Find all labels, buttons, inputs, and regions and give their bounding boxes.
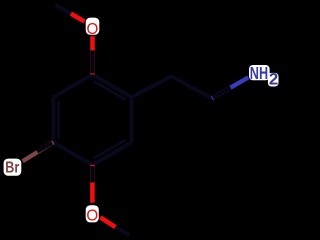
bond O-CH3 (bottom methyl) (100, 217, 115, 227)
bond C4-Br (23, 142, 54, 161)
bond CH2b-N (to amine) (212, 77, 248, 98)
wire ring bond C6-C5 (to bottom vertex) (93, 142, 132, 165)
wire ring bond C5-C4 (bottom vertex to bottom-left) (53, 142, 92, 165)
wire ring bond C3-C2 (to top vertex) (53, 75, 92, 98)
atom label O (bottom methoxy oxygen) (86, 205, 99, 224)
svg-text:O: O (87, 21, 99, 38)
svg-text:Br: Br (5, 159, 19, 176)
wire ring bond C2-C1 (top vertex to top-right) (93, 75, 132, 98)
bond C2-O (top methoxy), red underlay with dark carbon half (90, 36, 95, 74)
wire inner line C4=C3 (57, 101, 60, 138)
wire chain bond CH2a-CH2b (172, 76, 213, 98)
wire inner line C2=C1 (94, 81, 126, 99)
svg-text:NH: NH (250, 63, 268, 83)
wire ring bond C4-C3 (left edge) (52, 97, 56, 142)
atom label NH2 (amine) (249, 63, 279, 89)
bond O-CH3 (top methyl) (71, 14, 85, 22)
svg-text:O: O (86, 207, 98, 224)
atom label Br (bromine) (4, 159, 22, 177)
wire ring bond C1-C6 (right edge) (130, 97, 134, 142)
wire inner line C6=C5 (94, 140, 126, 158)
svg-text:2: 2 (269, 70, 278, 89)
wire chain bond C1-CH2a (132, 76, 172, 97)
aromatic inner double-bond lines (59, 81, 126, 158)
benzene ring C1-C6 (dark carbon bonds) (53, 75, 131, 166)
bond C5-O (bottom methoxy) (90, 165, 95, 203)
atom label O (top methoxy oxygen) (86, 18, 100, 38)
